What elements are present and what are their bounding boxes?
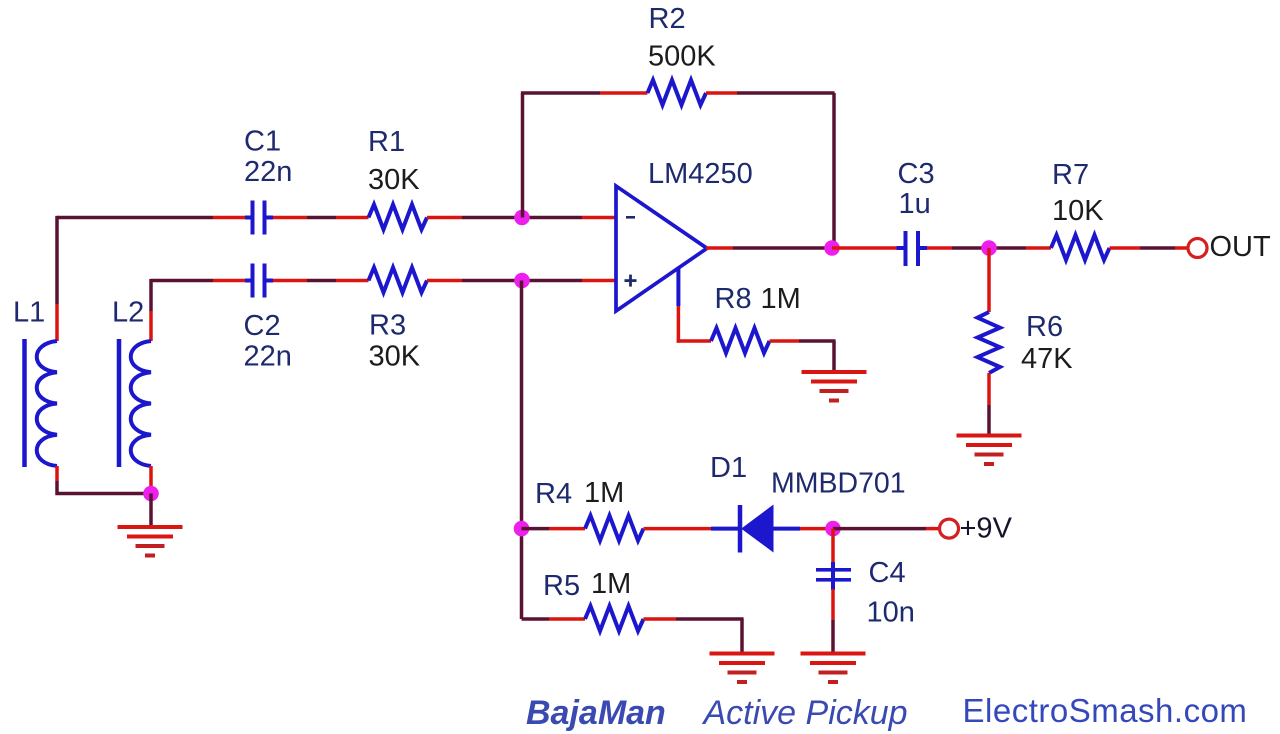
ground R8 bbox=[802, 370, 867, 403]
ground R6 bbox=[957, 434, 1022, 467]
svg-text:LM4250: LM4250 bbox=[648, 158, 753, 190]
resistor R6 bbox=[978, 312, 1001, 373]
node minus-input junction bbox=[514, 210, 530, 226]
node output junction bbox=[824, 240, 840, 256]
terminal OUT bbox=[1188, 239, 1207, 258]
svg-text:500K: 500K bbox=[648, 41, 716, 73]
inductor L1 bbox=[25, 339, 58, 467]
svg-text:22n: 22n bbox=[244, 341, 292, 373]
svg-text:ElectroSmash.com: ElectroSmash.com bbox=[963, 692, 1248, 729]
inductor L2 bbox=[119, 339, 151, 467]
wire R3 to op-amp plus input bbox=[427, 279, 616, 283]
resistor R8 bbox=[711, 328, 770, 353]
wire feedback right vertical bbox=[832, 93, 836, 248]
svg-text:L1: L1 bbox=[13, 297, 45, 329]
wire C2 to R3 bbox=[273, 279, 369, 283]
svg-text:Active Pickup: Active Pickup bbox=[702, 694, 908, 732]
svg-text:L2: L2 bbox=[112, 297, 144, 329]
capacitor C3 bbox=[897, 231, 928, 266]
svg-text:MMBD701: MMBD701 bbox=[771, 468, 906, 500]
wire left vertical to L1 bbox=[55, 216, 59, 341]
svg-text:C3: C3 bbox=[898, 158, 935, 190]
svg-text:R7: R7 bbox=[1052, 159, 1089, 191]
svg-text:R3: R3 bbox=[369, 310, 406, 342]
capacitor C2 bbox=[245, 264, 273, 298]
wire R5 to ground bbox=[644, 619, 744, 652]
resistor R1 bbox=[369, 205, 428, 230]
svg-text:10K: 10K bbox=[1052, 195, 1104, 227]
svg-text:1M: 1M bbox=[584, 477, 624, 509]
svg-text:R5: R5 bbox=[543, 570, 580, 602]
wire C1 to R1 bbox=[273, 216, 369, 220]
resistor R7 bbox=[1051, 235, 1110, 260]
svg-text:1M: 1M bbox=[591, 568, 631, 600]
wire R6 to ground bbox=[987, 373, 991, 434]
svg-text:OUT: OUT bbox=[1210, 231, 1272, 263]
resistor R3 bbox=[369, 268, 428, 293]
svg-text:BajaMan: BajaMan bbox=[526, 694, 666, 732]
wire R6 branch down bbox=[987, 248, 991, 312]
wire output node to C3 bbox=[832, 246, 897, 250]
svg-text:30K: 30K bbox=[368, 164, 420, 196]
wire C4 top lead bbox=[831, 529, 835, 568]
svg-text:1M: 1M bbox=[761, 283, 801, 315]
wire C3 to R7 bbox=[927, 246, 1051, 250]
wire D1 to +9V node bbox=[773, 527, 833, 531]
resistor R2 bbox=[648, 80, 707, 105]
wire op-amp V- pin bbox=[677, 267, 711, 343]
wire minus-row left horizontal bbox=[57, 216, 245, 220]
ground pickup common bbox=[118, 525, 183, 558]
diode D1 bbox=[740, 505, 773, 553]
wire R4 left lead bbox=[522, 527, 586, 531]
wire feedback left vertical bbox=[521, 93, 525, 218]
wire L2 bottom bbox=[149, 466, 153, 494]
wire R1 to op-amp minus input bbox=[427, 216, 616, 220]
svg-text:10n: 10n bbox=[867, 597, 915, 629]
wire R2 to output node bbox=[706, 91, 835, 95]
node plus-input junction bbox=[514, 273, 530, 289]
ground C4 bbox=[801, 652, 866, 685]
node +9V junction bbox=[825, 521, 841, 537]
svg-text:D1: D1 bbox=[710, 452, 747, 484]
wire R4 to D1 bbox=[644, 527, 740, 531]
resistor R5 bbox=[585, 606, 644, 631]
capacitor C4 bbox=[816, 566, 851, 590]
ground R5 bbox=[710, 652, 775, 685]
resistor R4 bbox=[585, 516, 644, 541]
node R6 top junction bbox=[981, 240, 997, 256]
wire R5 left lead bbox=[522, 617, 586, 621]
svg-text:+9V: +9V bbox=[960, 513, 1013, 545]
svg-text:C1: C1 bbox=[244, 126, 281, 158]
wire feedback top horizontal bbox=[521, 91, 648, 95]
svg-text:47K: 47K bbox=[1021, 343, 1073, 375]
svg-text:1u: 1u bbox=[899, 188, 931, 220]
svg-text:C2: C2 bbox=[244, 310, 281, 342]
svg-text:R6: R6 bbox=[1026, 311, 1063, 343]
wire L2 top vertical bbox=[149, 279, 153, 341]
op-amp U1 LM4250 bbox=[616, 186, 707, 311]
svg-text:R8: R8 bbox=[715, 283, 752, 315]
capacitor C1 bbox=[245, 201, 273, 235]
svg-text:R4: R4 bbox=[535, 478, 572, 510]
wire plus node down to bias rows bbox=[520, 281, 524, 620]
wire L1 bottom bbox=[57, 466, 151, 494]
terminal +9V bbox=[940, 519, 959, 538]
wire stem to pickup ground bbox=[149, 494, 153, 526]
svg-text:R1: R1 bbox=[368, 126, 405, 158]
wire node to +9V terminal bbox=[833, 527, 939, 531]
svg-text:R2: R2 bbox=[649, 3, 686, 35]
svg-text:30K: 30K bbox=[369, 341, 421, 373]
svg-text:22n: 22n bbox=[244, 156, 292, 188]
wire R8 to ground bbox=[770, 341, 836, 370]
wire C4 to ground bbox=[831, 589, 835, 652]
node R4 junction bbox=[514, 521, 530, 537]
wire op-amp output bbox=[706, 246, 832, 250]
wire plus-row horizontal bbox=[151, 279, 245, 283]
svg-text:C4: C4 bbox=[869, 557, 906, 589]
wire R7 to OUT terminal bbox=[1110, 246, 1189, 250]
node pickup common junction bbox=[143, 486, 159, 502]
